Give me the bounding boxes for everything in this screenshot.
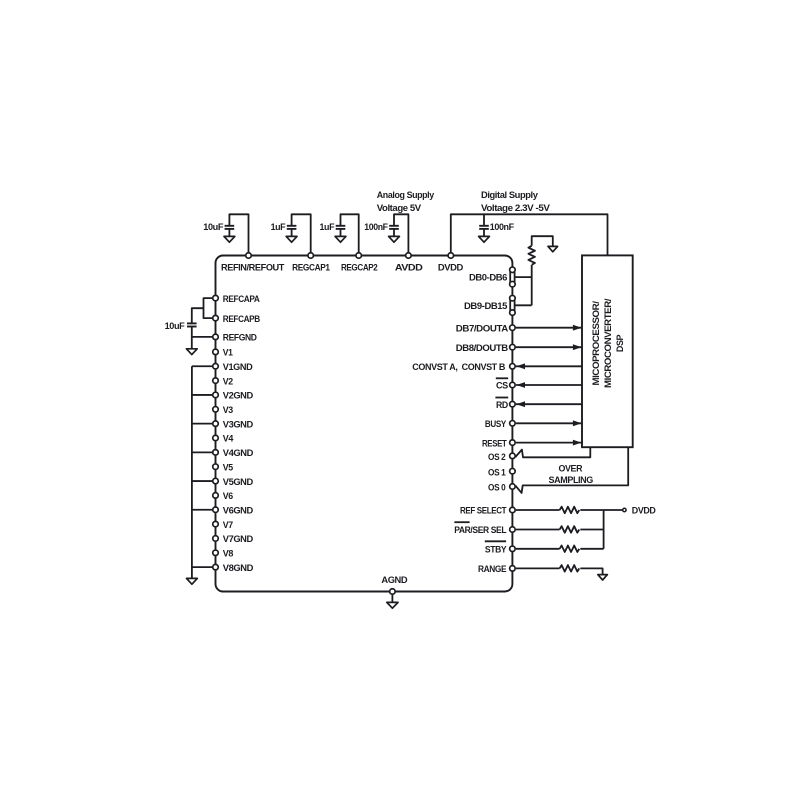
wire OS0 hook to block bottom bbox=[515, 447, 628, 493]
capacitor 1uF on REGCAP1 bbox=[287, 225, 297, 227]
svg-text:PAR/SER SEL: PAR/SER SEL bbox=[454, 525, 507, 535]
pin V1GND bbox=[213, 364, 219, 370]
wire REGCAP1 pin to capacitor bbox=[292, 214, 311, 255]
ground symbol under REGCAP1 capacitor bbox=[286, 236, 297, 242]
wire capacitor to ground bbox=[393, 229, 395, 237]
svg-text:REFGND: REFGND bbox=[223, 333, 258, 343]
svg-text:V4GND: V4GND bbox=[223, 448, 254, 458]
ADC chip body outline U1 bbox=[216, 256, 513, 592]
wire V3GND stub bbox=[192, 423, 216, 425]
pin OS 1 bbox=[510, 468, 516, 474]
wire STBY to resistor bbox=[516, 548, 560, 550]
svg-text:CONVST A, CONVST B: CONVST A, CONVST B bbox=[412, 362, 506, 372]
capacitor 100nF on AVDD bbox=[389, 225, 399, 227]
bus lines DB9-DB15 pin bbox=[509, 299, 511, 313]
wire REF SELECT to resistor bbox=[516, 509, 560, 511]
pin PAR/SER SEL bbox=[510, 527, 516, 533]
overline PAR bbox=[454, 521, 469, 523]
pin STBY bbox=[510, 546, 516, 552]
pin DB8/DOUTB bbox=[510, 344, 516, 350]
wire capacitor to ground bbox=[291, 229, 293, 237]
wire DB8/DOUTB to microprocessor bbox=[516, 346, 582, 348]
wire DB9-DB15 stub bbox=[515, 304, 532, 306]
wire REFIN/REFOUT pin to capacitor bbox=[229, 214, 248, 255]
ground symbol for bus resistor bbox=[548, 246, 558, 251]
wire DB7/DOUTA to microprocessor bbox=[516, 327, 582, 329]
microprocessor block U2 bbox=[582, 255, 633, 447]
capacitor 10uF on REFIN/REFOUT bbox=[225, 225, 235, 227]
wire REFCAPA/REFCAPB bracket bbox=[204, 298, 216, 318]
ground symbol at bottom of input ground bus bbox=[187, 578, 198, 584]
pin V3 bbox=[213, 407, 219, 413]
pin REFIN/REFOUT bbox=[246, 253, 252, 259]
svg-text:V1GND: V1GND bbox=[223, 362, 253, 372]
pin DB0-DB6 upper bbox=[510, 267, 516, 273]
svg-text:V2: V2 bbox=[223, 376, 233, 386]
pin REGCAP1 bbox=[308, 253, 314, 259]
resistor on PAR/SER SEL bbox=[560, 526, 580, 533]
wire V1GND stub bbox=[192, 365, 216, 367]
ground symbol under 10uF bbox=[186, 349, 197, 355]
resistor R1 pull-down bbox=[528, 246, 535, 265]
pin V8 bbox=[213, 550, 219, 556]
wire REF SELECT to DVDD terminal bbox=[580, 509, 622, 511]
svg-text:V8: V8 bbox=[223, 549, 234, 559]
pin DB0-DB6 lower bbox=[510, 281, 516, 287]
wire DB0-DB6 stub bbox=[515, 276, 532, 278]
pin V4GND bbox=[213, 450, 219, 456]
svg-text:Digital Supply: Digital Supply bbox=[481, 190, 538, 200]
overline RD bbox=[495, 397, 508, 399]
wire pull-up junction vertical bbox=[603, 510, 605, 549]
svg-text:SAMPLING: SAMPLING bbox=[549, 475, 594, 485]
ground symbol for RANGE bbox=[598, 575, 608, 580]
svg-text:REFCAPB: REFCAPB bbox=[223, 314, 261, 324]
wire RESET to microprocessor bbox=[516, 442, 582, 444]
svg-text:DVDD: DVDD bbox=[632, 505, 656, 515]
wire capacitor to ground bbox=[228, 229, 230, 237]
wire RANGE to resistor bbox=[516, 567, 560, 569]
svg-text:REGCAP2: REGCAP2 bbox=[341, 263, 378, 273]
svg-text:DB8/DOUTB: DB8/DOUTB bbox=[456, 343, 509, 353]
wire capacitor to ground bbox=[340, 229, 342, 237]
svg-text:REFIN/REFOUT: REFIN/REFOUT bbox=[221, 263, 285, 273]
svg-text:1uF: 1uF bbox=[271, 222, 286, 232]
svg-text:DB9-DB15: DB9-DB15 bbox=[464, 301, 507, 311]
pin DB9-DB15 upper bbox=[510, 295, 516, 301]
pin AVDD bbox=[406, 253, 412, 259]
svg-text:1uF: 1uF bbox=[320, 222, 335, 232]
svg-text:OVER: OVER bbox=[559, 464, 583, 474]
svg-text:OS 2: OS 2 bbox=[488, 452, 506, 462]
svg-text:DB7/DOUTA: DB7/DOUTA bbox=[456, 323, 509, 333]
capacitor 1uF on REGCAP2 bbox=[336, 225, 346, 227]
wire REGCAP2 pin to capacitor bbox=[341, 214, 359, 255]
wire AGND to ground bbox=[391, 592, 393, 603]
wire digital 100nF cap stub bbox=[483, 214, 485, 226]
wire V5GND stub bbox=[192, 480, 216, 482]
resistor on STBY bbox=[560, 546, 580, 553]
svg-text:Voltage 2.3V -5V: Voltage 2.3V -5V bbox=[481, 203, 550, 213]
overline STBY bbox=[485, 540, 506, 542]
pin REGCAP2 bbox=[356, 253, 362, 259]
wire CS to microprocessor bbox=[516, 384, 582, 386]
wire V8GND stub bbox=[192, 566, 216, 568]
wire V6GND stub bbox=[192, 509, 216, 511]
pin V8GND bbox=[213, 564, 219, 570]
svg-text:10uF: 10uF bbox=[203, 222, 224, 232]
svg-text:Voltage 5V: Voltage 5V bbox=[377, 203, 421, 213]
ground symbol AGND bbox=[387, 602, 398, 608]
microprocessor block label bbox=[591, 298, 625, 388]
svg-text:V3GND: V3GND bbox=[223, 419, 254, 429]
wire V2GND stub bbox=[192, 394, 216, 396]
resistor on RANGE bbox=[560, 565, 580, 572]
pin REF SELECT bbox=[510, 507, 516, 513]
overline CS bbox=[496, 377, 508, 379]
arrowhead into block for BUSY bbox=[573, 420, 582, 426]
pin AGND bbox=[390, 589, 396, 595]
wire REFGND to ground bus bbox=[192, 336, 216, 338]
svg-text:Analog Supply: Analog Supply bbox=[377, 190, 434, 200]
wire RANGE resistor to ground bbox=[580, 568, 602, 574]
wire resistor to ground hook bbox=[532, 236, 553, 246]
wire RD to microprocessor bbox=[516, 403, 582, 405]
svg-text:V4: V4 bbox=[223, 434, 234, 444]
svg-text:CS: CS bbox=[496, 381, 508, 391]
svg-text:100nF: 100nF bbox=[364, 222, 388, 232]
pin RD bbox=[510, 401, 516, 407]
svg-text:OS 1: OS 1 bbox=[488, 467, 506, 477]
wire DVDD pin riser and digital supply rail bbox=[451, 214, 608, 255]
wire OS2 hook to block bottom bbox=[515, 447, 590, 457]
svg-text:V6: V6 bbox=[223, 491, 233, 501]
pin V3GND bbox=[213, 421, 219, 427]
wire bracket to 10uF capacitor bbox=[192, 308, 204, 323]
arrowhead into block for DB8/DOUTB bbox=[573, 344, 582, 350]
pin V5GND bbox=[213, 478, 219, 484]
wire BUSY to microprocessor bbox=[516, 422, 582, 424]
pin CS bbox=[510, 382, 516, 388]
svg-text:REGCAP1: REGCAP1 bbox=[292, 263, 330, 273]
svg-text:AVDD: AVDD bbox=[395, 263, 424, 273]
pin V7GND bbox=[213, 536, 219, 542]
svg-text:100nF: 100nF bbox=[490, 222, 515, 232]
resistor on REF SELECT bbox=[560, 507, 580, 514]
wire PAR/SER SEL to resistor bbox=[516, 529, 560, 531]
svg-text:V8GND: V8GND bbox=[223, 563, 254, 573]
svg-text:BUSY: BUSY bbox=[485, 419, 506, 429]
svg-text:RESET: RESET bbox=[482, 438, 507, 448]
svg-text:AGND: AGND bbox=[381, 575, 408, 585]
wire 10uF cap down to ground bbox=[191, 327, 193, 349]
pin V4 bbox=[213, 435, 219, 441]
svg-text:10uF: 10uF bbox=[165, 321, 186, 331]
wire CONVST A to microprocessor bbox=[516, 365, 582, 367]
ground symbol under REFIN/REFOUT capacitor bbox=[224, 236, 235, 242]
svg-text:V5: V5 bbox=[223, 462, 233, 472]
ground symbol under DVDD capacitor bbox=[479, 236, 490, 242]
svg-text:V5GND: V5GND bbox=[223, 477, 254, 487]
svg-text:DVDD: DVDD bbox=[438, 263, 464, 273]
wire V4GND stub bbox=[192, 451, 216, 453]
pin DVDD bbox=[448, 253, 454, 259]
svg-text:RANGE: RANGE bbox=[478, 564, 507, 574]
bus pin gap masks bbox=[509, 273, 515, 281]
arrowhead toward pin for CS bbox=[516, 382, 525, 388]
pin OS 0 bbox=[510, 484, 516, 490]
svg-text:REFCAPA: REFCAPA bbox=[223, 294, 261, 304]
wire PAR/SER SEL to junction bbox=[580, 529, 603, 531]
pin DB7/DOUTA bbox=[510, 325, 516, 331]
svg-text:STBY: STBY bbox=[485, 545, 507, 555]
svg-text:V2GND: V2GND bbox=[223, 391, 254, 401]
pin V5 bbox=[213, 464, 219, 470]
wire analog input ground bus bbox=[191, 366, 193, 578]
pin OS 2 bbox=[510, 453, 516, 459]
capacitor C6 10uF bbox=[187, 322, 197, 324]
bus lines DB0-DB6 pin bbox=[509, 270, 511, 284]
svg-text:V7GND: V7GND bbox=[223, 534, 254, 544]
pin V2 bbox=[213, 378, 219, 384]
pin REFCAPA bbox=[213, 295, 219, 301]
wire bus tie vertical bbox=[531, 265, 533, 305]
svg-text:DB0-DB6: DB0-DB6 bbox=[469, 273, 507, 283]
svg-text:V3: V3 bbox=[223, 405, 233, 415]
svg-text:REF SELECT: REF SELECT bbox=[460, 506, 507, 516]
ground symbol under AVDD capacitor bbox=[389, 236, 400, 242]
pin CONVST A bbox=[510, 364, 516, 370]
wire cap to ground bbox=[483, 229, 485, 237]
pin REFCAPB bbox=[213, 315, 219, 321]
pin RESET bbox=[510, 440, 516, 446]
pin DB9-DB15 lower bbox=[510, 310, 516, 316]
svg-text:V6GND: V6GND bbox=[223, 505, 254, 515]
svg-text:V7: V7 bbox=[223, 520, 233, 530]
pin BUSY bbox=[510, 421, 516, 427]
arrowhead toward pin for RD bbox=[516, 401, 525, 407]
wire AVDD pin to capacitor bbox=[394, 214, 408, 255]
pin RANGE bbox=[510, 566, 516, 572]
svg-text:OS 0: OS 0 bbox=[488, 483, 506, 493]
pin REFGND bbox=[213, 334, 219, 340]
svg-text:RD: RD bbox=[496, 400, 509, 410]
pin V6 bbox=[213, 493, 219, 499]
svg-text:V1: V1 bbox=[223, 348, 233, 358]
pin V7 bbox=[213, 521, 219, 527]
arrowhead toward pin for CONVST A bbox=[516, 363, 525, 369]
wire STBY to junction bbox=[580, 548, 603, 550]
capacitor C5 100nF on DVDD rail bbox=[479, 225, 489, 227]
pin V6GND bbox=[213, 507, 219, 513]
pin V2GND bbox=[213, 392, 219, 398]
pin V1 bbox=[213, 349, 219, 355]
arrowhead into block for RESET bbox=[573, 440, 582, 446]
terminal DVDD bbox=[623, 508, 626, 511]
arrowhead into block for DB7/DOUTA bbox=[573, 325, 582, 331]
ground symbol under REGCAP2 capacitor bbox=[335, 236, 346, 242]
